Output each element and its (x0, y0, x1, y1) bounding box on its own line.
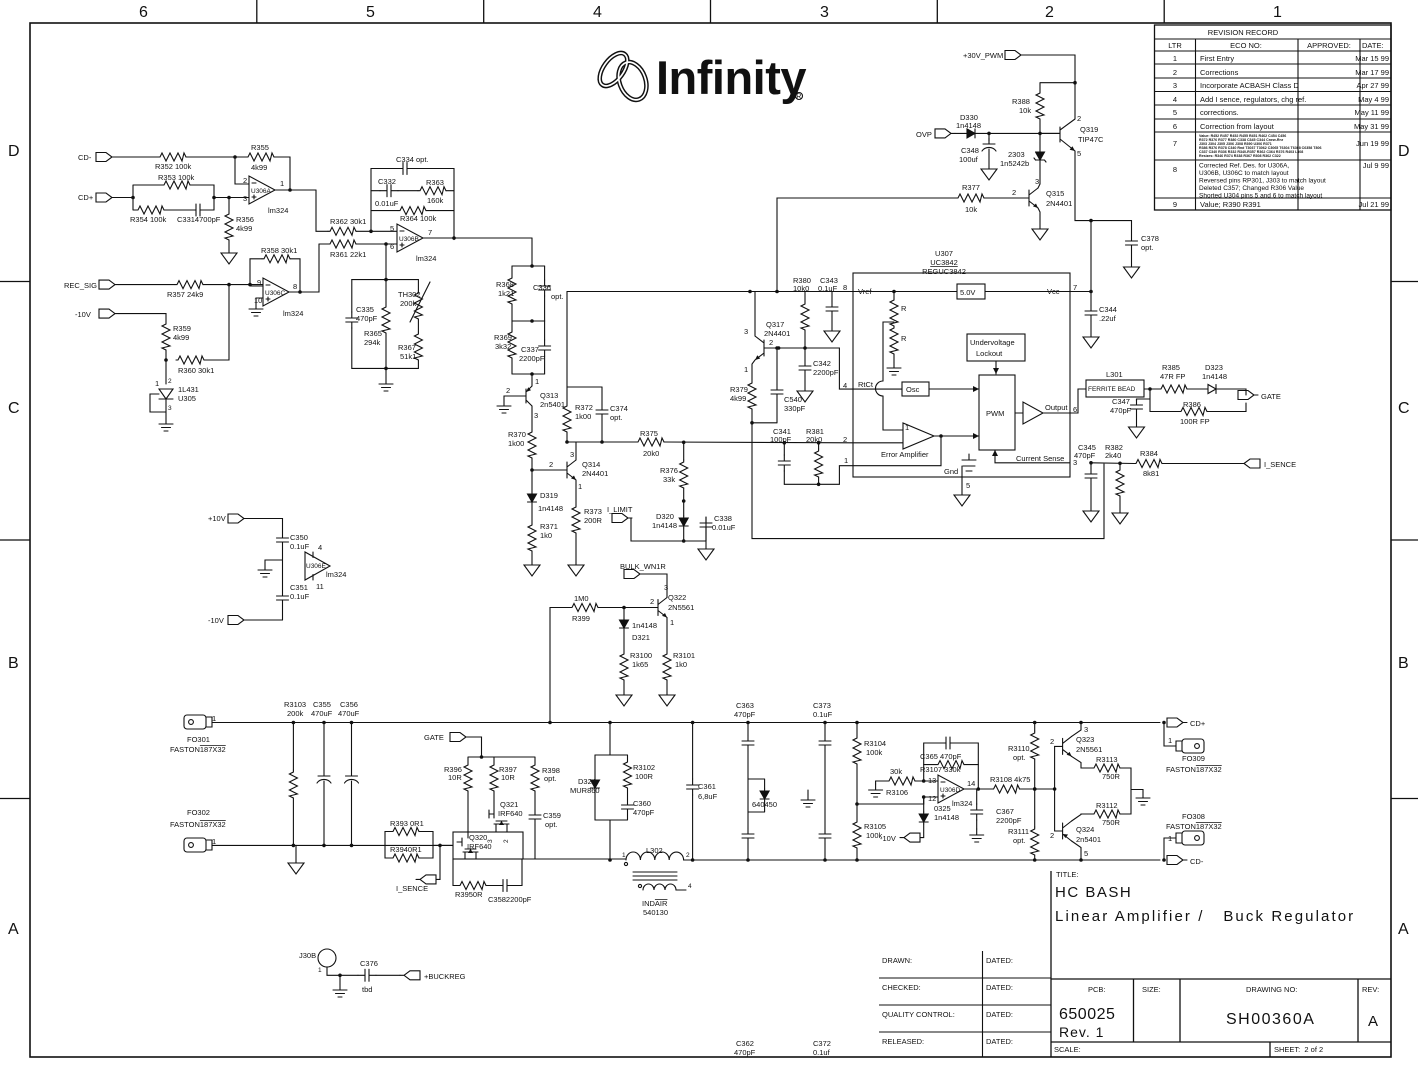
bottom rail (352, 368, 419, 378)
internal Vref-Vcc rail with 5.0V box (853, 291, 1070, 293)
capacitor C378 (1091, 221, 1132, 235)
svg-text:C3314700pF: C3314700pF (177, 215, 221, 224)
capacitor C374 (601, 387, 603, 404)
error amplifier (903, 423, 934, 449)
svg-text:Corrected Ref. Des. for U306A,: Corrected Ref. Des. for U306A, (1199, 163, 1290, 170)
svg-text:1: 1 (212, 714, 216, 723)
svg-text:R: R (796, 94, 801, 101)
svg-text:Q317: Q317 (766, 320, 784, 329)
svg-text:CD+: CD+ (78, 193, 94, 202)
capacitor C355 (323, 723, 325, 771)
svg-text:R370: R370 (508, 430, 526, 439)
svg-text:100k: 100k (866, 748, 883, 757)
capacitor C373 (824, 723, 826, 736)
resistor R384 (1134, 449, 1162, 478)
svg-text:C356: C356 (340, 700, 358, 709)
svg-text:TIP47C: TIP47C (1078, 135, 1104, 144)
capacitor C347 (1149, 389, 1151, 412)
bottom joint (512, 373, 545, 375)
svg-text:LTR: LTR (1168, 41, 1182, 50)
op-amp U306D (928, 775, 975, 808)
ground (1129, 424, 1145, 438)
emitter to ground (1038, 208, 1040, 226)
connector BULK_WN1R (620, 562, 666, 579)
svg-text:RtCt: RtCt (858, 380, 874, 389)
logo swirl (594, 48, 651, 104)
svg-text:200R: 200R (584, 516, 603, 525)
svg-text:2200pF: 2200pF (996, 816, 1022, 825)
svg-text:C365 470pF: C365 470pF (920, 752, 962, 761)
wire (955, 132, 965, 134)
svg-text:R360 30k1: R360 30k1 (178, 366, 214, 375)
svg-text:2n5401: 2n5401 (540, 400, 565, 409)
connector CD- (1167, 856, 1204, 867)
connector FO301 (170, 714, 226, 754)
wire collector to rail (575, 442, 577, 460)
ground (954, 492, 970, 506)
svg-text:Undervoltage: Undervoltage (970, 338, 1015, 347)
diode D325 (923, 797, 925, 812)
resistor R380 (804, 292, 806, 303)
svg-text:1: 1 (318, 967, 322, 974)
wire (352, 244, 419, 280)
resistor R355 (246, 143, 274, 172)
svg-text:10: 10 (254, 296, 262, 305)
svg-text:200k: 200k (287, 709, 304, 718)
svg-text:Jul 9 99: Jul 9 99 (1363, 161, 1389, 170)
svg-text:5: 5 (1173, 108, 1177, 117)
op-amp U306A (243, 176, 288, 215)
svg-text:2n5401: 2n5401 (1076, 835, 1101, 844)
svg-text:R371: R371 (540, 522, 558, 531)
resistor R363 (418, 178, 446, 205)
svg-text:10k0: 10k0 (793, 284, 809, 293)
svg-text:REGUC3842: REGUC3842 (922, 267, 966, 276)
svg-text:2: 2 (1050, 737, 1054, 746)
svg-text:R358 30k1: R358 30k1 (261, 246, 297, 255)
wire output (423, 238, 532, 240)
svg-text:R3112: R3112 (1096, 801, 1118, 810)
svg-text:U306C: U306C (265, 290, 286, 297)
svg-text:Q322: Q322 (668, 593, 686, 602)
wire (116, 185, 162, 210)
resistor R361 (328, 240, 366, 259)
svg-text:C3582200pF: C3582200pF (488, 895, 532, 904)
svg-text:+BUCKREG: +BUCKREG (424, 972, 466, 981)
resistor R396 (444, 763, 472, 791)
ground (659, 692, 675, 706)
svg-text:20k0: 20k0 (643, 449, 659, 458)
svg-text:650025: 650025 (1059, 1006, 1115, 1023)
internal tap wire with hop-over arc (883, 322, 894, 381)
svg-text:R359: R359 (173, 324, 191, 333)
resistor R354 (130, 206, 167, 224)
svg-text:U306B: U306B (399, 236, 419, 243)
capacitor C362 (734, 828, 756, 1057)
capacitor C348 (988, 133, 990, 141)
svg-text:ECO NO:: ECO NO: (1230, 41, 1262, 50)
svg-text:3: 3 (534, 411, 538, 420)
svg-text:C332: C332 (378, 177, 396, 186)
resistor R394 0R1 (390, 845, 422, 862)
svg-text:3: 3 (487, 839, 494, 843)
svg-text:7: 7 (1073, 283, 1077, 292)
svg-text:Error Amplifier: Error Amplifier (881, 450, 929, 459)
svg-text:470pF: 470pF (734, 1048, 756, 1057)
svg-text:R3100: R3100 (630, 651, 652, 660)
svg-text:Q321: Q321 (500, 800, 518, 809)
svg-text:R384: R384 (1140, 449, 1158, 458)
output wire (964, 788, 992, 790)
connector -10V (880, 833, 920, 843)
svg-text:1M0: 1M0 (574, 594, 589, 603)
svg-text:2N5561: 2N5561 (668, 603, 694, 612)
emitter to R3113 (1072, 756, 1092, 768)
transistor Q313 2n5401 (506, 374, 565, 420)
svg-text:3: 3 (1035, 177, 1039, 186)
svg-text:33k: 33k (663, 475, 675, 484)
wire (1162, 463, 1240, 465)
capacitor C360 (627, 788, 629, 799)
wire +30V rail (1025, 55, 1075, 91)
svg-text:C335: C335 (356, 305, 374, 314)
svg-text:2: 2 (843, 435, 847, 444)
svg-text:APPROVED:: APPROVED: (1307, 41, 1351, 50)
connector FO302 (170, 808, 226, 852)
svg-text:opt.: opt. (544, 774, 557, 783)
svg-text:R393 0R1: R393 0R1 (390, 819, 424, 828)
svg-text:Gnd: Gnd (944, 467, 958, 476)
transistor Q314 2N4401 (532, 450, 608, 491)
emitter wire to R373 (575, 480, 577, 505)
capacitor C334 (396, 155, 429, 175)
svg-text:Linear Amplifier / Buck Regu: Linear Amplifier / Buck Regulator (1055, 908, 1355, 925)
svg-text:6: 6 (1173, 122, 1177, 131)
resistor R397 (490, 763, 517, 791)
svg-text:R3107 330k: R3107 330k (920, 765, 961, 774)
svg-text:I_SENCE: I_SENCE (1264, 460, 1296, 469)
svg-text:100R: 100R (635, 772, 654, 781)
resistor R385 (1159, 363, 1187, 393)
wire long rail to Vref (567, 291, 853, 293)
connector +BUCKREG (400, 971, 466, 981)
svg-text:1k0: 1k0 (675, 660, 687, 669)
svg-text:R355: R355 (251, 143, 269, 152)
svg-text:R3950R: R3950R (455, 890, 483, 899)
svg-text:2: 2 (168, 378, 172, 385)
svg-text:Output: Output (1045, 403, 1068, 412)
svg-text:U306B, U306C to match layout: U306B, U306C to match layout (1199, 170, 1289, 177)
svg-text:R3102: R3102 (633, 763, 655, 772)
svg-text:200k: 200k (400, 299, 417, 308)
capacitor C351 (277, 583, 310, 606)
svg-text:L302: L302 (646, 846, 663, 855)
svg-text:2: 2 (1173, 68, 1177, 77)
svg-text:3k32: 3k32 (495, 342, 511, 351)
svg-text:4: 4 (1173, 95, 1177, 104)
svg-text:1: 1 (155, 379, 159, 388)
svg-text:5: 5 (1084, 849, 1088, 858)
svg-text:5: 5 (366, 4, 375, 21)
svg-text:U306A: U306A (251, 188, 272, 195)
svg-text:R372: R372 (575, 403, 593, 412)
svg-text:1: 1 (1168, 736, 1172, 745)
svg-text:540130: 540130 (643, 908, 668, 917)
mosfet Q320 IRF640 box (453, 832, 523, 859)
capacitor C372 (813, 828, 831, 1057)
svg-text:0325: 0325 (934, 804, 951, 813)
wire (398, 190, 418, 192)
resistor R352 (155, 153, 192, 171)
svg-text:A: A (8, 921, 19, 938)
resistor R3110 opt (1034, 723, 1036, 732)
svg-text:R365: R365 (364, 329, 382, 338)
svg-text:4: 4 (843, 381, 847, 390)
connector -10V (208, 616, 248, 626)
capacitor C361 (692, 723, 694, 780)
wire U306C output (289, 244, 319, 292)
wire (235, 157, 249, 184)
svg-text:2: 2 (243, 176, 247, 185)
zone ticks top (257, 0, 1164, 23)
resistor R3113 (1092, 755, 1121, 781)
snubber R395 C358 (453, 859, 458, 886)
svg-text:U306D: U306D (940, 787, 961, 794)
base wire (1054, 746, 1056, 831)
svg-text:tbd: tbd (362, 985, 372, 994)
transistor Q323 2N5561 (1050, 725, 1102, 756)
svg-text:100R FP: 100R FP (1180, 417, 1210, 426)
svg-text:PWM: PWM (986, 409, 1004, 418)
svg-text:0.01uF: 0.01uF (712, 523, 736, 532)
svg-text:C342: C342 (813, 359, 831, 368)
wire (356, 230, 397, 232)
svg-text:BULK_WN1R: BULK_WN1R (620, 562, 666, 571)
svg-text:2: 2 (506, 386, 510, 395)
wire (414, 169, 454, 239)
svg-text:2200pF: 2200pF (813, 368, 839, 377)
svg-text:Rev. 1: Rev. 1 (1059, 1024, 1104, 1040)
svg-text:opt.: opt. (1013, 836, 1026, 845)
svg-text:5.0V: 5.0V (960, 288, 975, 297)
wire (119, 314, 166, 322)
svg-text:R367: R367 (398, 343, 416, 352)
svg-text:opt.: opt. (1141, 243, 1154, 252)
ground (1124, 264, 1140, 278)
wire from U306A to R362 (316, 190, 328, 231)
resistor R368 (511, 266, 513, 276)
svg-text:R3113: R3113 (1096, 755, 1118, 764)
svg-text:5: 5 (390, 224, 394, 233)
resistor R364 (371, 210, 398, 212)
svg-text:lm324: lm324 (326, 570, 346, 579)
capacitor C356 (351, 723, 353, 771)
ground (1112, 510, 1128, 524)
ground (824, 328, 840, 342)
svg-text:1: 1 (744, 365, 748, 374)
svg-text:2: 2 (1012, 188, 1016, 197)
transistor Q324 2n5401 (1050, 821, 1101, 858)
resistor R372 (563, 403, 593, 432)
svg-text:1n4148: 1n4148 (934, 813, 959, 822)
ground (524, 562, 540, 576)
svg-text:SCALE:: SCALE: (1054, 1045, 1081, 1054)
svg-text:0.01uF: 0.01uF (375, 199, 399, 208)
svg-text:2: 2 (549, 460, 553, 469)
svg-text:I_SENCE: I_SENCE (396, 884, 428, 893)
inductor L301 ferrite bead box (1086, 380, 1144, 397)
svg-text:I_LIMIT: I_LIMIT (607, 505, 633, 514)
svg-text:GATE: GATE (424, 733, 444, 742)
svg-text:8: 8 (843, 283, 847, 292)
op-amp U306C (254, 278, 303, 318)
svg-text:corrections.: corrections. (1200, 108, 1239, 117)
svg-text:FASTON187X32: FASTON187X32 (170, 745, 226, 754)
svg-text:Q315: Q315 (1046, 189, 1064, 198)
mid rail (512, 320, 545, 322)
resistor R399 1M0 (570, 594, 598, 623)
resistor R386 (1150, 411, 1179, 413)
svg-text:4: 4 (688, 883, 692, 890)
svg-text:1n4148: 1n4148 (538, 504, 563, 513)
resistor R398 (531, 763, 560, 791)
svg-text:12: 12 (928, 794, 936, 803)
svg-text:1: 1 (212, 837, 216, 846)
mosfet Q321 IRF640 (489, 791, 494, 818)
svg-text:2N4401: 2N4401 (764, 329, 790, 338)
emitter wire (666, 618, 668, 653)
svg-text:7: 7 (428, 228, 432, 237)
svg-text:C350: C350 (290, 533, 308, 542)
diode D324 MUR860 (595, 723, 628, 756)
ground (1083, 508, 1099, 522)
svg-text:-10V: -10V (208, 616, 224, 625)
svg-text:7: 7 (1173, 139, 1177, 148)
svg-text:R369: R369 (494, 333, 512, 342)
resistor R3100 (620, 651, 652, 680)
resistor R358 feedback (250, 259, 262, 285)
resistor R388 (1012, 91, 1044, 119)
connector +10V (208, 514, 248, 523)
svg-text:FO301: FO301 (187, 735, 210, 744)
svg-text:INDAIR: INDAIR (642, 899, 668, 908)
svg-text:C540: C540 (784, 395, 802, 404)
wire (186, 156, 246, 158)
svg-text:R373: R373 (584, 507, 602, 516)
svg-text:1: 1 (844, 456, 848, 465)
svg-text:1: 1 (670, 618, 674, 627)
connector GATE in (424, 733, 470, 743)
bottom rail to pin1 (784, 466, 853, 485)
svg-text:R353 100k: R353 100k (158, 173, 195, 182)
svg-text:CHECKED:: CHECKED: (882, 983, 921, 992)
svg-text:SIZE:: SIZE: (1142, 985, 1161, 994)
svg-text:8: 8 (293, 282, 297, 291)
svg-text:C355: C355 (313, 700, 331, 709)
wire vertical x567 (567, 292, 602, 405)
svg-text:C351: C351 (290, 583, 308, 592)
svg-text:-10V: -10V (880, 834, 896, 843)
svg-text:Mar 15 99: Mar 15 99 (1355, 54, 1389, 63)
resistor R365 (385, 280, 387, 305)
zone ticks left (0, 282, 30, 799)
diode D319 (528, 491, 564, 513)
svg-text:SHEET: 2 of 2: SHEET: 2 of 2 (1274, 1045, 1323, 1054)
svg-text:lm324: lm324 (952, 799, 972, 808)
svg-text:DRAWING NO:: DRAWING NO: (1246, 985, 1297, 994)
wire from top rail up (550, 608, 570, 723)
resistor R3103 (292, 723, 294, 771)
wire (319, 243, 397, 245)
svg-text:13: 13 (928, 776, 936, 785)
svg-text:2: 2 (686, 852, 690, 859)
capacitor C343 (831, 292, 833, 302)
svg-text:CD-: CD- (78, 153, 92, 162)
TITLE BLOCK (879, 870, 1391, 1057)
svg-text:Q320: Q320 (469, 833, 487, 842)
resistor R357 (167, 281, 203, 299)
svg-text:1: 1 (905, 423, 909, 432)
svg-text:Apr 27 99: Apr 27 99 (1356, 81, 1389, 90)
PWM box (979, 375, 1015, 450)
svg-text:C347: C347 (1112, 397, 1130, 406)
svg-text:R356: R356 (236, 215, 254, 224)
svg-text:470pF: 470pF (1074, 451, 1096, 460)
svg-text:750R: 750R (1102, 772, 1121, 781)
svg-text:750R: 750R (1102, 818, 1121, 827)
svg-text:FASTON187X32: FASTON187X32 (1166, 765, 1222, 774)
svg-text:R3940R1: R3940R1 (390, 845, 422, 854)
svg-text:2k40: 2k40 (1105, 451, 1121, 460)
bottom loop wire (752, 423, 1104, 539)
svg-text:1: 1 (535, 377, 539, 386)
svg-text:C378: C378 (1141, 234, 1159, 243)
wire (274, 157, 290, 190)
wire (248, 519, 283, 533)
ground (221, 250, 237, 264)
svg-text:REVISION RECORD: REVISION RECORD (1208, 28, 1279, 37)
diode D330 (956, 113, 981, 138)
svg-text:R3104: R3104 (864, 739, 886, 748)
svg-text:OVP: OVP (916, 130, 932, 139)
svg-text:Deleted C357; Changed R306 Va: Deleted C357; Changed R306 Value (1199, 185, 1304, 192)
svg-text:0.1uF: 0.1uF (813, 710, 833, 719)
resistor R3108 (990, 775, 1030, 793)
current sense rail (1091, 462, 1134, 465)
resistor R375 (636, 429, 664, 458)
svg-text:8k81: 8k81 (1143, 469, 1159, 478)
ground (698, 546, 714, 560)
resistor R379 (730, 381, 756, 409)
svg-text:470pF: 470pF (356, 314, 378, 323)
svg-text:Q314: Q314 (582, 460, 600, 469)
svg-text:470uF: 470uF (311, 709, 333, 718)
resistor R359 (162, 322, 191, 350)
svg-text:C359: C359 (543, 811, 561, 820)
svg-text:Add I sence, regulators, chg r: Add I sence, regulators, chg ref. (1200, 95, 1306, 104)
node junction (233, 155, 237, 159)
svg-text:2: 2 (1045, 4, 1054, 21)
svg-text:51k1: 51k1 (400, 352, 416, 361)
svg-text:2N4401: 2N4401 (582, 469, 608, 478)
svg-text:DATED:: DATED: (986, 1010, 1013, 1019)
capacitor C376 (358, 959, 378, 994)
ground under rail (295, 845, 297, 860)
svg-text:330pF: 330pF (784, 404, 806, 413)
svg-text:R3110: R3110 (1008, 744, 1030, 753)
svg-text:0.1uF: 0.1uF (818, 284, 838, 293)
svg-text:C337: C337 (521, 345, 539, 354)
